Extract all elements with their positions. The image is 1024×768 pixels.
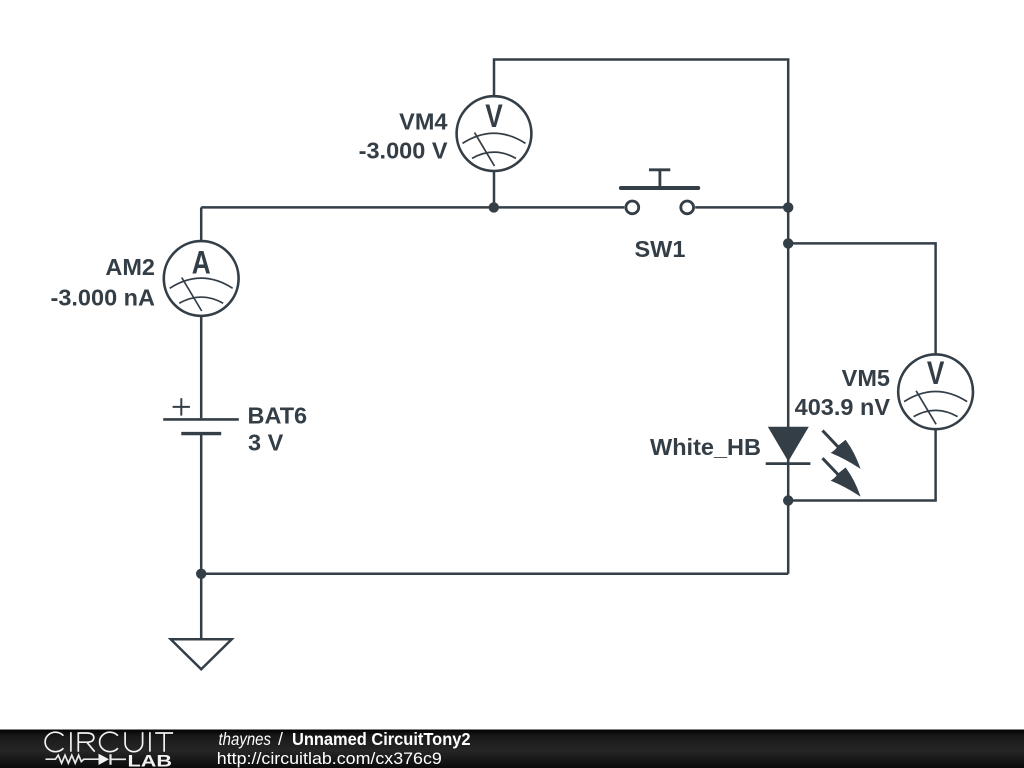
svg-text:http://circuitlab.com/cx376c9: http://circuitlab.com/cx376c9 [217, 749, 442, 768]
svg-text:403.9 nV: 403.9 nV [795, 394, 891, 420]
svg-text:BAT6: BAT6 [248, 403, 308, 429]
svg-text:VM5: VM5 [842, 365, 890, 391]
svg-text:V: V [485, 99, 503, 134]
svg-text:-3.000 V: -3.000 V [359, 137, 448, 163]
svg-text:AM2: AM2 [105, 254, 155, 280]
svg-text:V: V [927, 356, 945, 391]
svg-text:A: A [192, 246, 211, 281]
svg-text:SW1: SW1 [635, 236, 686, 262]
svg-text:LAB: LAB [128, 752, 173, 768]
svg-text:VM4: VM4 [399, 108, 447, 134]
svg-text:White_HB: White_HB [650, 434, 761, 460]
svg-text:3 V: 3 V [248, 430, 284, 456]
svg-text:-3.000 nA: -3.000 nA [51, 284, 156, 310]
svg-text:thaynes/Unnamed CircuitTony2: thaynes/Unnamed CircuitTony2 [219, 729, 471, 749]
